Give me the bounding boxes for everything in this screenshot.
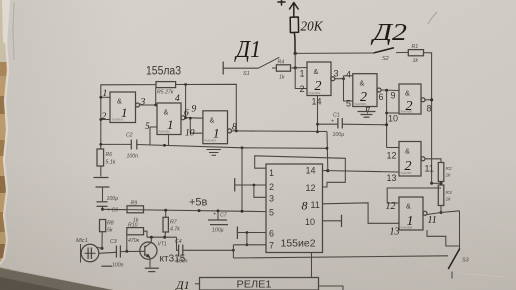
resistor R1 (408, 50, 423, 56)
pin 11 output bubble (421, 157, 425, 161)
svg-text:R9: R9 (131, 201, 138, 207)
wire R4 to NAND4 pin1 (291, 67, 308, 70)
svg-text:&: & (210, 116, 215, 125)
svg-text:1k: 1k (413, 58, 419, 64)
svg-text:13: 13 (387, 173, 397, 183)
svg-text:6: 6 (379, 92, 384, 102)
wire to S2 (295, 52, 374, 54)
wire pin6 tie to pin7 (246, 233, 248, 245)
svg-text:+: + (213, 212, 216, 218)
node near C7 (198, 209, 201, 212)
svg-text:14: 14 (306, 166, 316, 176)
wire relay out (319, 286, 344, 290)
wire pin7 line (233, 244, 266, 246)
wire NAND7 out to R2 (425, 159, 441, 163)
svg-text:9: 9 (391, 91, 396, 101)
svg-text:R7: R7 (170, 220, 178, 226)
svg-text:5.1k: 5.1k (106, 160, 116, 166)
wire S2 to R1 (396, 51, 408, 53)
wire NAND2 out to NAND3 in (185, 117, 203, 120)
NAND gate D2.2 (NAND5) (353, 74, 377, 107)
svg-text:Д1: Д1 (234, 37, 261, 63)
wire NAND4 pin14 riser (317, 96, 319, 132)
svg-text:C7: C7 (220, 213, 228, 219)
svg-text:5: 5 (269, 208, 274, 218)
NAND gate D1.4 (NAND8) (399, 197, 423, 230)
resistor R2 (438, 163, 444, 182)
NAND gate D1.2 (NAND2) (157, 103, 181, 135)
pin 8 output bubble (228, 129, 232, 133)
svg-text:РЕЛЕ1: РЕЛЕ1 (237, 280, 272, 290)
NAND gate D2.4 (NAND7) (399, 142, 421, 177)
svg-text:S1: S1 (243, 71, 250, 77)
svg-text:&: & (164, 108, 169, 117)
wire feedback to NAND3 output (176, 84, 237, 131)
wire R5-right riser (185, 85, 187, 118)
svg-text:100n: 100n (127, 154, 139, 160)
svg-text:NAND1: NAND1 (112, 118, 124, 122)
shading bottom-left of paper (0, 267, 115, 290)
IC 155ие2 (266, 164, 323, 253)
node C6 bottom on +5 bus (101, 208, 104, 211)
svg-text:1: 1 (103, 89, 108, 99)
wire lower bus to east (137, 145, 242, 148)
pin 8 output bubble (421, 98, 425, 102)
mic left electrode line (80, 244, 82, 263)
svg-text:&: & (405, 89, 410, 98)
wire staircase to S3 (427, 230, 459, 246)
wood table edge (0, 0, 10, 290)
node R7 top (164, 209, 167, 212)
switch S3 blade (449, 249, 460, 269)
resistor R3 (438, 185, 444, 206)
svg-text:11: 11 (428, 215, 437, 226)
NAND gate D2.1 (NAND4) (307, 62, 331, 96)
wire bottom bus to S3 (233, 256, 448, 258)
wire NAND1 out to NAND2 in (140, 104, 158, 106)
svg-text:&: & (360, 79, 365, 88)
NAND gate D1.1 (NAND1) (110, 92, 136, 123)
svg-text:R2: R2 (446, 166, 452, 172)
svg-text:R8: R8 (107, 221, 114, 227)
svg-text:R1: R1 (412, 44, 419, 50)
bright corner sliver (2, 0, 10, 45)
svg-text:10: 10 (185, 129, 195, 139)
svg-text:4.7k: 4.7k (170, 227, 180, 233)
wire rail down to pin2 (295, 53, 307, 88)
svg-text:11: 11 (311, 200, 320, 210)
svg-text:NAND4: NAND4 (309, 91, 321, 95)
svg-text:VT1: VT1 (158, 242, 167, 248)
switch S1 blade (258, 57, 279, 68)
svg-text:&: & (314, 67, 319, 76)
svg-text:12: 12 (386, 201, 396, 212)
wire R1 down east rail (424, 53, 432, 184)
svg-text:R4: R4 (278, 60, 285, 66)
svg-text:C4: C4 (175, 239, 182, 245)
wire collector line (147, 236, 177, 238)
svg-text:NAND7: NAND7 (401, 171, 413, 175)
ground below NAND5 (366, 107, 368, 112)
pin 6 output bubble (181, 116, 185, 120)
dark bottom-left wedge (0, 268, 113, 290)
capacitor C4 (177, 237, 179, 250)
svg-text:3: 3 (140, 98, 146, 108)
svg-text:1k: 1k (446, 173, 452, 179)
pin 2 (101, 119, 110, 121)
resistor R6 (100, 144, 102, 149)
svg-text:1k: 1k (279, 75, 285, 81)
relay РЕЛЕ1 (200, 278, 319, 290)
capacitor C3 (99, 252, 117, 253)
svg-text:C2: C2 (126, 133, 133, 139)
svg-text:1: 1 (269, 168, 274, 178)
svg-text:20K: 20K (301, 20, 324, 35)
pin 1 (101, 96, 110, 98)
wire NAND2 bottom stub (168, 135, 170, 146)
transistor VT1 кт315 (140, 242, 157, 259)
ground below VT1 (145, 267, 159, 269)
mic ground bar (102, 265, 113, 267)
svg-text:8: 8 (427, 104, 432, 114)
svg-text:3: 3 (334, 69, 339, 79)
svg-text:S2: S2 (382, 56, 389, 62)
node R2/R3 (440, 182, 442, 186)
capacitor C6 (97, 201, 108, 203)
switch S3 lower terminal (451, 272, 453, 279)
wire tie down NAND6 pin10 (386, 90, 388, 147)
svg-text:13: 13 (390, 227, 400, 238)
wire 20K down (294, 33, 295, 54)
svg-text:100n: 100n (112, 263, 124, 269)
capacitor C6 top plate (96, 186, 110, 188)
wire NAND3 input tie (190, 118, 203, 133)
wire top feedback rail (101, 85, 156, 145)
ground below NAND3 (207, 149, 222, 151)
hand arrow up (290, 3, 299, 18)
svg-text:2: 2 (300, 84, 305, 94)
wire pin1 loop to pin12 (255, 156, 346, 187)
paper edge shadow line (13, 2, 14, 60)
svg-text:100n: 100n (176, 259, 188, 265)
svg-text:2: 2 (269, 182, 274, 192)
svg-text:1: 1 (300, 69, 305, 79)
wire +5v bus (103, 209, 267, 211)
paper torn edge highlight (0, 0, 9, 264)
svg-text:3: 3 (269, 194, 274, 204)
wire Д1 to relay (195, 283, 200, 285)
switch S2 blade (374, 48, 393, 53)
node mic top to R8 (101, 247, 104, 250)
svg-text:5: 5 (145, 122, 150, 132)
wire C1 to NAND6/7 node (342, 123, 386, 126)
resistor R8 (100, 220, 106, 232)
svg-text:8: 8 (302, 199, 308, 213)
svg-text:NAND2: NAND2 (159, 130, 171, 134)
resistor R10 (126, 235, 128, 251)
svg-text:4: 4 (346, 70, 351, 80)
svg-text:&: & (405, 147, 410, 156)
wire NAND3 out east (232, 130, 328, 133)
svg-text:NAND3: NAND3 (205, 139, 217, 143)
ground below R6 (100, 166, 102, 177)
svg-text:1k: 1k (446, 197, 452, 203)
pin 11 output bubble (423, 211, 427, 215)
node R5 right (184, 83, 187, 86)
svg-text:11: 11 (425, 164, 434, 174)
svg-text:C3: C3 (110, 239, 117, 245)
svg-text:12: 12 (306, 183, 316, 193)
wire C3 to base (120, 250, 144, 252)
svg-text:100µ: 100µ (107, 196, 119, 202)
svg-text:100µ: 100µ (333, 132, 345, 138)
svg-text:NAND6: NAND6 (401, 110, 413, 114)
svg-text:5: 5 (346, 99, 351, 109)
NAND gate D1.3 (NAND3) (203, 111, 228, 144)
wire NAND8 out to S3 (427, 211, 460, 215)
wire NAND4 out to NAND5 in (335, 78, 344, 80)
pin 6 output bubble (377, 88, 381, 92)
pencil scribble (428, 12, 437, 24)
hand plus mark (278, 0, 285, 5)
svg-text:12: 12 (387, 151, 397, 161)
svg-text:+ C6: + C6 (107, 208, 118, 214)
svg-text:Mic1: Mic1 (76, 238, 88, 244)
capacitor C7 (217, 209, 220, 212)
capacitor C1 (318, 123, 338, 125)
resistor R4 (272, 67, 276, 69)
svg-text:+5в: +5в (189, 197, 208, 209)
wire pin14 node to NAND7 pin13 (328, 171, 399, 172)
svg-text:+: + (331, 119, 334, 125)
wire pin3 tie to pin2 (254, 185, 266, 197)
wire pin6 with open terminal (238, 232, 266, 234)
svg-text:10: 10 (388, 114, 398, 124)
NAND gate D2.3 (NAND6) (399, 84, 421, 114)
wire NAND6 out to east rail (425, 99, 432, 101)
wire pin9 bottom to relay (311, 253, 313, 278)
svg-text:100µ: 100µ (212, 228, 224, 234)
wire R2R3 node to NAND8 pin12 (387, 188, 441, 203)
resistor R7 (165, 210, 167, 217)
svg-text:S3: S3 (462, 258, 469, 264)
svg-text:2: 2 (102, 112, 107, 122)
svg-text:155ла3: 155ла3 (146, 66, 181, 78)
svg-text:4: 4 (175, 94, 180, 104)
svg-text:6: 6 (269, 229, 274, 239)
svg-text:R3: R3 (446, 190, 452, 196)
svg-text:R6: R6 (106, 152, 113, 158)
wire NAND5 out to NAND6 pin9 (381, 89, 399, 92)
wire pin11 to NAND8 pin13 (323, 203, 400, 224)
svg-text:Д1: Д1 (175, 278, 190, 290)
resistor R5 (156, 82, 176, 88)
pin 3 output bubble (136, 103, 140, 107)
wire riser +5 to vcc line (241, 148, 243, 212)
wire bus continues to IC vcc corner (242, 147, 327, 150)
faint scratch bottom right (458, 273, 505, 277)
svg-text:9: 9 (192, 105, 197, 115)
wire vcc vertical (326, 132, 329, 171)
svg-text:14: 14 (312, 97, 322, 107)
svg-text:7: 7 (269, 241, 274, 251)
svg-text:R10: R10 (128, 222, 138, 228)
resistor R9 (127, 206, 144, 213)
resistor 20K hand-drawn (290, 17, 298, 33)
svg-text:&: & (406, 202, 411, 211)
svg-text:Д2: Д2 (371, 20, 407, 46)
svg-text:155ие2: 155ие2 (281, 238, 316, 250)
capacitor C2 (101, 143, 132, 145)
svg-text:NAND8: NAND8 (401, 226, 413, 230)
wire C4 to pin7 riser (183, 249, 234, 251)
switch S1 terminal (222, 62, 224, 75)
svg-text:10: 10 (305, 217, 315, 227)
wire into NAND7 pin12 (387, 147, 399, 149)
wire pin14 node (323, 170, 328, 172)
svg-text:5k: 5k (107, 228, 113, 234)
wire R5-left riser (155, 88, 157, 105)
pin 3 output bubble (331, 77, 335, 81)
wire pin2 with open terminal (235, 184, 266, 186)
wire pin10 with open terminal (323, 220, 342, 222)
svg-text:R5 27k: R5 27k (157, 90, 174, 96)
svg-text:470к: 470к (128, 238, 140, 244)
pin 5 (150, 126, 157, 128)
